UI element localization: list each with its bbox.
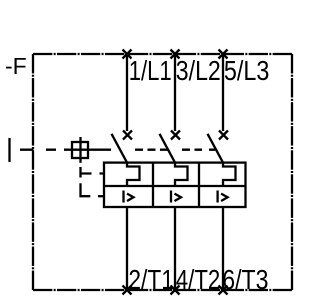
contact blade pole 2 [160, 134, 176, 163]
wire: pole 1 incoming conductor 1/L1 [126, 54, 128, 131]
trip linkage dashed vertical below actuator [81, 167, 91, 196]
terminal cross 5/L3 at border [219, 50, 228, 59]
manual operator handle bar [8, 138, 10, 162]
terminal cross 6/T3 at border [219, 286, 228, 295]
thermal overload release pole 1 (square jog) [127, 163, 140, 186]
wire: pole 2 incoming conductor 3/L2 [174, 54, 176, 131]
breaker contact cross pole 3 [219, 131, 228, 140]
wire: pole 2 outgoing conductor 4/T2 [174, 207, 176, 290]
trip linkage dashed stub to magnetic release [98, 195, 104, 197]
svg-text:3/L2: 3/L2 [176, 54, 221, 86]
wire: pole 3 outgoing conductor 6/T3 [222, 207, 224, 290]
magnetic overcurrent release symbol I> pole 3 [218, 191, 228, 203]
magnetic overcurrent release symbol I> pole 2 [171, 191, 181, 203]
actuator square with cross [72, 142, 88, 158]
terminal cross 4/T2 at border [171, 286, 180, 295]
terminal cross 2/T1 at border [123, 286, 132, 295]
trip linkage dashed branch to thermal release [81, 172, 104, 174]
wire: pole 1 outgoing conductor 2/T1 [126, 207, 128, 290]
actuator linkage line (solid, through square) [64, 149, 111, 151]
contact blade pole 1 [112, 134, 128, 163]
wire: pole 3 incoming conductor 5/L3 [222, 54, 224, 131]
svg-text:2/T1: 2/T1 [128, 263, 174, 295]
svg-text:4/T2: 4/T2 [176, 263, 221, 295]
breaker -F enclosure boundary (dash-dot box) [33, 54, 292, 290]
breaker contact cross pole 2 [171, 131, 180, 140]
mechanism linkage dashes between poles [135, 149, 215, 151]
svg-text:6/T3: 6/T3 [222, 263, 268, 295]
svg-text:1/L1: 1/L1 [129, 54, 172, 86]
svg-text:5/L3: 5/L3 [224, 54, 270, 86]
magnetic overcurrent release symbol I> pole 1 [124, 191, 134, 203]
release block outline (3x2 grid) [104, 163, 246, 207]
contact blade pole 3 [208, 134, 224, 163]
thermal overload release pole 2 (square jog) [175, 163, 188, 186]
breaker contact cross pole 1 [123, 131, 132, 140]
terminal cross 3/L2 at border [171, 50, 180, 59]
actuator linkage line (dashed, through border) [20, 149, 56, 151]
terminal cross 1/L1 at border [123, 50, 132, 59]
svg-text:-F: -F [5, 53, 27, 79]
thermal overload release pole 3 (square jog) [223, 163, 236, 186]
